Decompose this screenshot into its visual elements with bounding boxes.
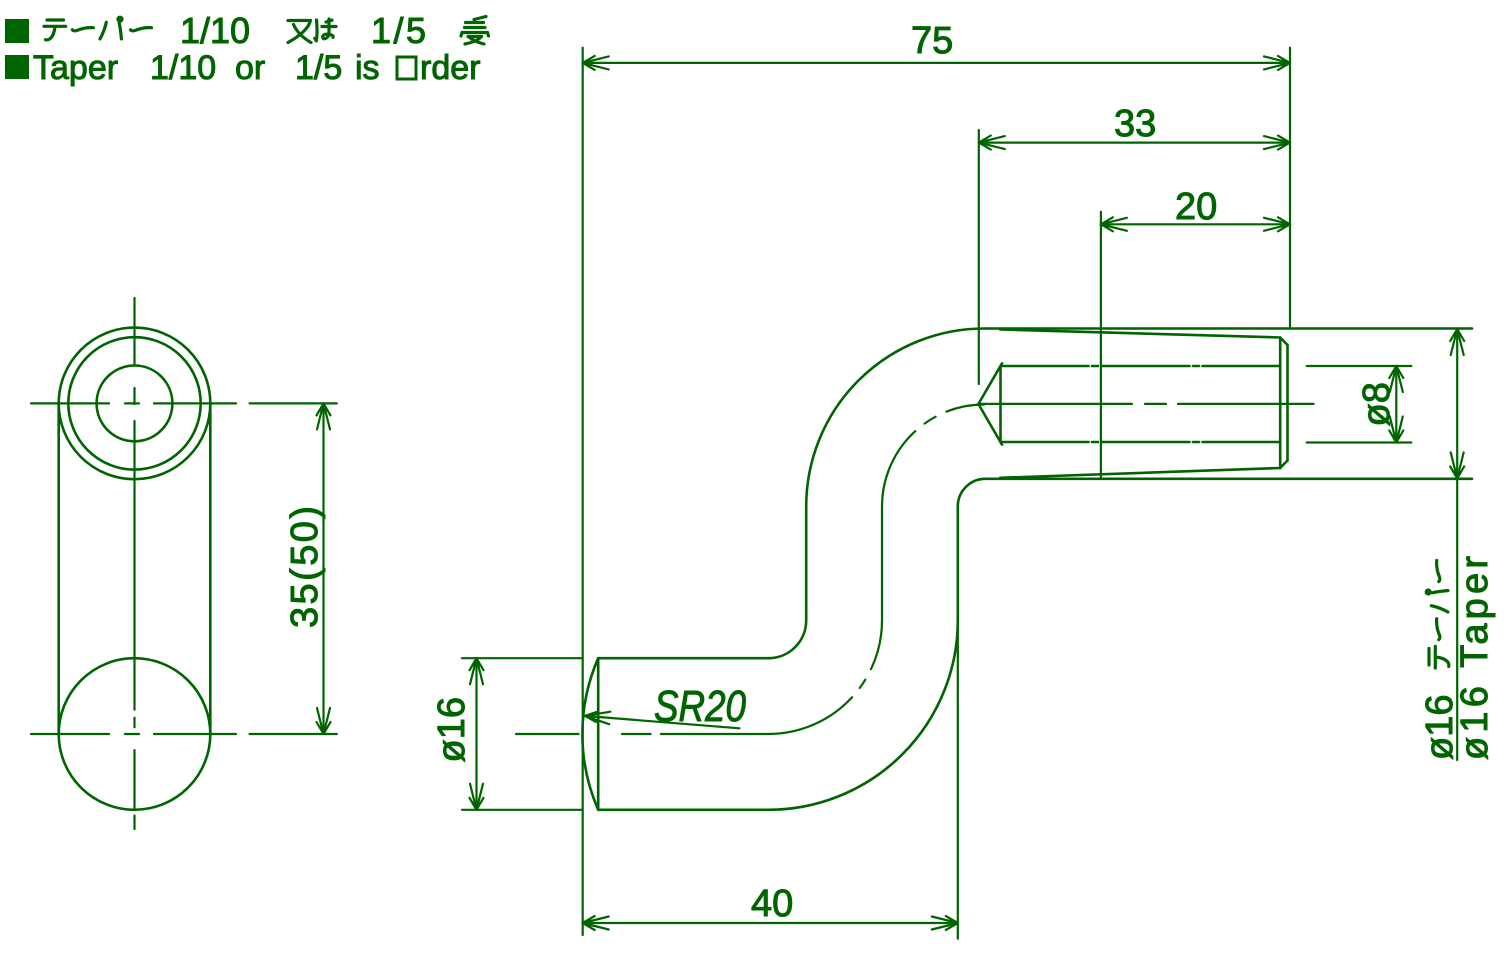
note katakana テーパー: [44, 16, 152, 40]
drill base line: [999, 366, 1002, 442]
svg-text:40: 40: [751, 883, 793, 925]
grip sphere junction line: [597, 658, 600, 810]
grip centerline: [516, 733, 768, 735]
dimension o16 left: [462, 658, 581, 810]
svg-text:1/10: 1/10: [150, 49, 216, 87]
svg-text:is: is: [355, 49, 380, 87]
dimension 35(50): [250, 403, 337, 734]
right tangent line: [209, 403, 212, 734]
vertical centerline: [133, 298, 135, 829]
svg-text:1/5: 1/5: [295, 49, 342, 87]
left tangent line: [57, 403, 60, 734]
svg-text:ø16 Taper: ø16 Taper: [1454, 556, 1496, 760]
dimension 75: [583, 48, 1290, 935]
horizontal centerline bottom circle: [31, 733, 236, 735]
vertical text o16 taper jp: [1419, 561, 1461, 761]
drill cone lower side: [978, 404, 1002, 445]
svg-text:1/10: 1/10: [180, 10, 250, 51]
pin hole top line: [1001, 365, 1281, 368]
S bend centerline: [768, 404, 984, 734]
horizontal centerline top circle: [31, 402, 236, 404]
kana は: [315, 19, 336, 41]
svg-text:75: 75: [911, 20, 953, 62]
dimension o8: [1307, 366, 1412, 443]
note bullet square 1: [5, 19, 29, 43]
taper bottom line: [1000, 468, 1280, 478]
taper top line: [1000, 330, 1280, 338]
chamfer edge line: [1279, 338, 1282, 469]
top cylinder centerline: [979, 403, 1314, 405]
bend1 inner arc: [768, 620, 806, 658]
bottom circle o16: [59, 658, 211, 810]
svg-text:33: 33: [1114, 103, 1156, 145]
hole circle o8: [97, 366, 173, 442]
grip spherical end SR20 arc: [582, 658, 598, 810]
note bullet square 2: [5, 55, 29, 79]
bend1 outer arc: [768, 620, 957, 809]
svg-text:SR20: SR20: [654, 682, 746, 731]
arm left edge: [805, 507, 808, 621]
chamfer top: [1280, 338, 1287, 346]
svg-text:1/5: 1/5: [371, 10, 426, 51]
kanji 又: [288, 21, 311, 43]
note box O of Order: [397, 57, 416, 79]
outer circle top (taper big end): [59, 328, 211, 480]
end face: [1286, 345, 1289, 461]
dimension 33: [979, 130, 1290, 384]
bend2 outer arc: [806, 329, 984, 507]
top cylinder envelope bottom: [984, 477, 1472, 480]
svg-text:ø16: ø16: [431, 697, 473, 762]
dimension 40: [583, 620, 958, 938]
svg-text:rder: rder: [420, 49, 480, 87]
svg-text:ø8: ø8: [1356, 382, 1398, 426]
dimension o16 taper right: [1450, 329, 1464, 760]
top cylinder envelope top: [984, 327, 1472, 330]
circle taper small end: [68, 337, 200, 469]
svg-text:35(50): 35(50): [284, 506, 326, 628]
SR20 leader: [585, 712, 740, 729]
dimension 20: [1101, 212, 1290, 479]
svg-text:Taper: Taper: [33, 49, 118, 87]
drill cone upper side: [978, 363, 1002, 404]
pin hole bottom line: [1001, 441, 1281, 444]
grip top edge: [598, 657, 768, 660]
bend2 inner arc: [958, 479, 984, 507]
grip bottom edge: [598, 808, 768, 811]
chamfer bottom: [1280, 461, 1287, 469]
svg-text:20: 20: [1175, 186, 1217, 228]
kanji 受: [461, 17, 489, 45]
arm right edge: [956, 507, 959, 621]
svg-text:or: or: [235, 49, 265, 87]
